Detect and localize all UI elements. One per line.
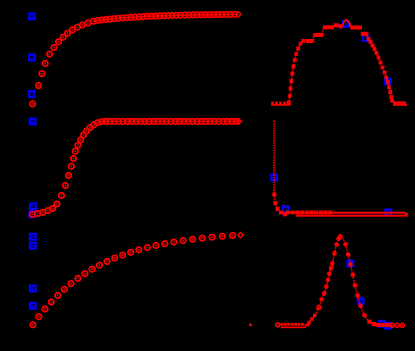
red series L3 end diamond marker (238, 232, 243, 237)
red distribution R1 left rise dotted line (288, 41, 302, 101)
red series L2 end diamond marker (236, 119, 241, 124)
blue data series L2 (steep curve, open squares) (30, 119, 36, 217)
red distribution R3 left flank contiguous squares (307, 314, 316, 325)
red R2 baseline lower fit line (296, 213, 408, 217)
red distribution R1 left baseline (line and dash markers) (271, 101, 291, 106)
red distribution R3 left flank markers (319, 236, 341, 301)
red data series L2 (middle-left sigmoid curve, open circles) (30, 119, 239, 217)
red distribution R1 stepped top bars (306, 23, 367, 43)
blue markers R3 (open squares) (348, 261, 391, 329)
red distribution R3 dotted curve line (303, 236, 393, 327)
blue markers R1 (open squares on distribution) (343, 21, 391, 84)
red data series L3 (bottom-left slow saturation curve, open circles) (30, 233, 235, 328)
red distribution R3 far-left tail markers (249, 323, 280, 327)
blue markers R2 (open squares) (271, 175, 391, 216)
red R3 right tail open circles (390, 323, 404, 327)
red series L1 end diamond marker (236, 12, 241, 17)
red distribution R2 vertical dotted decay line (273, 120, 275, 190)
red distribution R1 right baseline (line and dash markers) (393, 101, 407, 105)
red distribution R1 right descent dotted line (366, 33, 393, 99)
red data series L1 (top-left saturation curve, open circles) (30, 12, 237, 107)
red distribution R3 apex and right flank markers (338, 234, 367, 318)
red distribution R2 elbow (dots and square markers) (272, 189, 287, 216)
red distribution R2 baseline marker row (286, 211, 406, 215)
red distribution R1 top spike line (343, 20, 351, 27)
blue data series L3 (steep curve, open squares) (30, 234, 36, 309)
red distribution R1 right descent square markers (365, 32, 394, 103)
blue data series L1 (steep curve, open squares) (29, 14, 35, 97)
red distribution R3 left baseline marker row (281, 323, 304, 326)
red distribution R1 left rise square markers (288, 39, 305, 98)
red R3 open circle marker on left flank (317, 305, 321, 309)
red R3 left baseline lower fit line (281, 324, 310, 328)
red distribution R3 right baseline squares (367, 320, 389, 327)
